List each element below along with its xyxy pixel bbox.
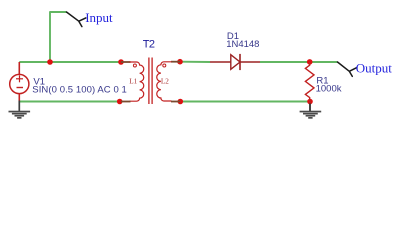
wire secondary top: transformer to diode anode xyxy=(180,61,210,63)
transformer T2 core xyxy=(148,58,150,105)
resistor R1 xyxy=(305,62,314,102)
wire top main: V1 top to transformer primary xyxy=(19,61,121,63)
probe hook (Input) xyxy=(67,12,86,27)
node dot: R1 bottom junction xyxy=(307,99,313,105)
svg-text:T2: T2 xyxy=(143,38,155,50)
svg-text:Output: Output xyxy=(356,61,393,76)
node dot: R1 top junction xyxy=(307,59,313,65)
svg-text:SIN(0 0.5 100) AC 0 1: SIN(0 0.5 100) AC 0 1 xyxy=(32,84,127,95)
transformer T2 secondary winding L2 xyxy=(157,62,181,102)
svg-text:1000k: 1000k xyxy=(316,83,342,94)
voltage source V1 xyxy=(10,62,29,101)
node dot: primary bottom terminal xyxy=(117,99,123,105)
diode D1 xyxy=(210,54,260,70)
node dot: secondary top terminal xyxy=(177,59,183,65)
polarity dot L2 xyxy=(163,64,166,67)
probe hook (Output) xyxy=(338,62,357,76)
transformer T2 primary winding L1 xyxy=(121,62,144,102)
wire input tap vertical and horizontal elbow xyxy=(50,12,67,62)
wire diode cathode to R1 top and Output probe xyxy=(260,61,338,63)
wire bottom right: secondary bottom to R1 ground xyxy=(180,101,310,103)
polarity dot L1 xyxy=(133,64,136,67)
node dot: input tap junction xyxy=(47,59,53,65)
node dot: primary top terminal xyxy=(118,59,124,65)
node dot: secondary bottom terminal xyxy=(178,99,184,105)
wire bottom left: ground junction to primary bottom xyxy=(19,101,119,103)
ground (left, under V1) xyxy=(9,101,31,119)
ground (right, under R1) xyxy=(300,102,322,119)
svg-text:Input: Input xyxy=(85,10,113,25)
svg-text:L1: L1 xyxy=(129,77,137,85)
svg-text:L2: L2 xyxy=(161,77,169,85)
svg-text:1N4148: 1N4148 xyxy=(226,39,259,50)
